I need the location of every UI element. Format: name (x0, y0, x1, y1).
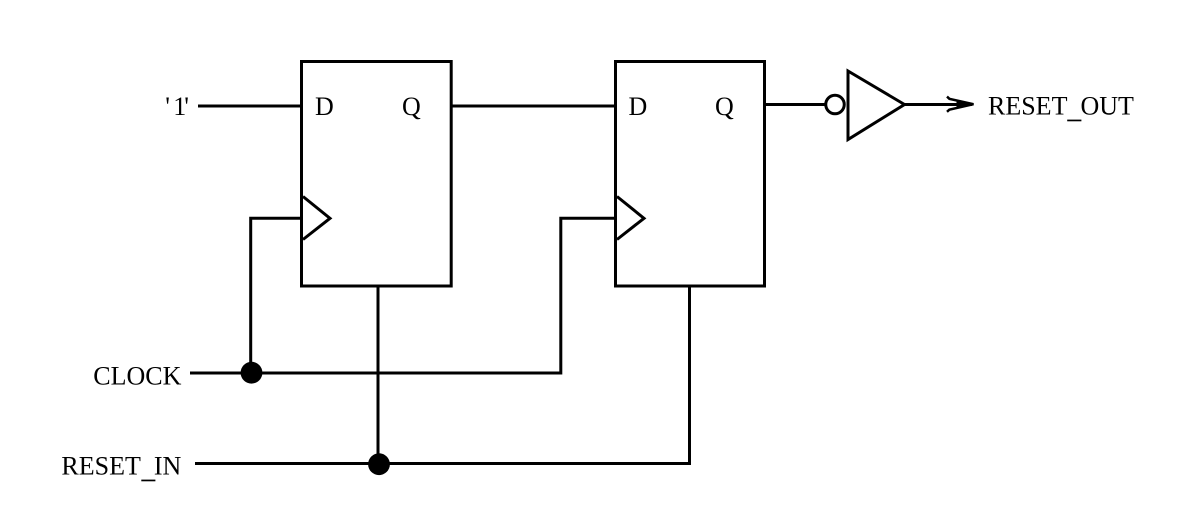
svg-text:D: D (629, 92, 648, 121)
svg-text:CLOCK: CLOCK (93, 362, 181, 391)
svg-text:D: D (315, 92, 334, 121)
svg-text:Q: Q (402, 92, 421, 121)
svg-text:IN: IN (154, 452, 182, 481)
svg-text:RESET: RESET (988, 91, 1068, 120)
svg-text:': ' (184, 92, 189, 121)
svg-text:': ' (165, 92, 170, 121)
svg-text:RESET: RESET (61, 452, 141, 481)
svg-text:Q: Q (715, 92, 734, 121)
svg-text:OUT: OUT (1081, 91, 1135, 120)
